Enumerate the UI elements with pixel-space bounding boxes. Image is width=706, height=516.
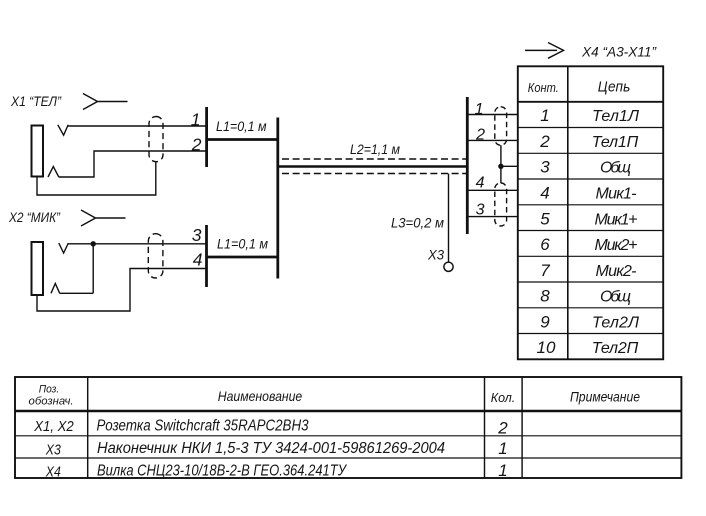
jack X2 tip contact (59, 243, 69, 253)
svg-text:Цепь: Цепь (598, 79, 631, 96)
wire screen to row3 (501, 165, 518, 167)
wire junction down (92, 244, 94, 293)
cable bar X4 (466, 97, 469, 234)
svg-text:7: 7 (540, 261, 550, 280)
junction dot screens (498, 164, 503, 169)
svg-text:Кол.: Кол. (491, 390, 516, 405)
wire pin4 to table (469, 189, 518, 191)
wire X1 sleeve to pin2 (59, 151, 207, 177)
svg-text:X1, X2: X1, X2 (33, 419, 73, 435)
BOM column divider 1 (87, 377, 89, 478)
svg-text:1: 1 (498, 461, 507, 480)
terminal X3 circle (444, 262, 453, 271)
BOM row line 1 (15, 435, 681, 437)
svg-text:Примечание: Примечание (570, 390, 640, 405)
svg-text:X4: X4 (45, 465, 61, 481)
svg-text:Общ: Общ (600, 289, 631, 306)
svg-text:3: 3 (192, 225, 202, 245)
svg-text:3: 3 (540, 158, 550, 177)
jack X1 body (32, 126, 44, 177)
svg-text:Тел2Л: Тел2Л (592, 314, 639, 331)
cable L1 bottom (207, 256, 278, 259)
svg-text:X3: X3 (427, 247, 444, 263)
screen symbol cable L1 bottom (148, 234, 163, 278)
svg-text:L2=1,1 м: L2=1,1 м (350, 141, 400, 157)
svg-text:Тел1Л: Тел1Л (592, 108, 639, 125)
svg-text:Тел1П: Тел1П (592, 134, 639, 151)
wire pin1 to table (469, 114, 518, 116)
wire X2 sleeve (60, 292, 93, 294)
svg-text:1: 1 (540, 106, 549, 125)
pin table numbers (537, 106, 556, 357)
svg-text:1: 1 (191, 110, 201, 130)
BOM header line (15, 410, 681, 412)
svg-text:4: 4 (540, 184, 549, 203)
cable L1 top (207, 138, 278, 141)
wire X2 body to pin4 (37, 269, 207, 312)
screen symbol pair 1-2 (495, 107, 507, 145)
svg-text:2: 2 (191, 135, 202, 155)
cable L2 screen dash bottom (282, 173, 466, 175)
svg-text:Конт.: Конт. (528, 81, 559, 95)
svg-text:Мик2+: Мик2+ (595, 237, 638, 254)
pin table circuits (592, 108, 639, 357)
pin table header line (518, 101, 663, 103)
wire X1 tip to pin1 (68, 125, 206, 127)
svg-text:Мик2-: Мик2- (596, 263, 637, 280)
junction dot X2 (91, 241, 96, 246)
svg-text:2: 2 (475, 127, 485, 144)
X4 direction arrow (525, 43, 564, 59)
BOM row line 2 (15, 457, 681, 459)
svg-text:1: 1 (498, 439, 507, 458)
jack X2 body (32, 242, 44, 295)
svg-text:9: 9 (540, 312, 550, 331)
svg-text:L1=0,1 м: L1=0,1 м (216, 118, 267, 134)
cable L2 screen dash top (282, 158, 466, 160)
svg-text:Общ: Общ (600, 160, 631, 177)
svg-text:5: 5 (540, 209, 550, 228)
cable bar X1 (205, 107, 208, 167)
svg-text:Мик1+: Мик1+ (595, 211, 638, 228)
BOM table frame (15, 377, 681, 478)
wire X2 tip to pin3 (68, 243, 206, 245)
svg-text:6: 6 (540, 235, 550, 254)
jack X1 sleeve contact (48, 167, 59, 178)
svg-text:L3=0,2 м: L3=0,2 м (391, 215, 444, 231)
pin table column divider (567, 66, 569, 359)
svg-text:Наконечник НКИ 1,5-3 ТУ 3424-0: Наконечник НКИ 1,5-3 ТУ 3424-001-5986126… (97, 440, 445, 457)
pin table row lines (518, 128, 663, 334)
connector X2 plug arrow (81, 210, 126, 226)
svg-text:Розетка Switchcraft 35RAPC2BH3: Розетка Switchcraft 35RAPC2BH3 (97, 418, 309, 435)
cable L2 core (278, 165, 468, 168)
svg-text:Поз.: Поз. (39, 384, 60, 396)
BOM column divider 2 (484, 377, 486, 478)
svg-text:10: 10 (537, 338, 556, 357)
svg-text:Тел2П: Тел2П (592, 340, 639, 357)
svg-text:3: 3 (476, 202, 485, 219)
junction cable bar (276, 118, 279, 279)
svg-text:L1=0,1 м: L1=0,1 м (217, 236, 268, 252)
svg-text:2: 2 (539, 132, 550, 151)
cable bar X2 (205, 225, 208, 287)
svg-text:2: 2 (497, 419, 508, 438)
svg-text:X1 “ТЕЛ”: X1 “ТЕЛ” (10, 94, 61, 109)
svg-text:обознач.: обознач. (29, 396, 74, 408)
jack X2 sleeve contact (51, 284, 60, 294)
svg-text:4: 4 (476, 175, 485, 192)
svg-text:Мик1-: Мик1- (596, 186, 637, 203)
svg-text:8: 8 (540, 287, 550, 306)
pin table frame (518, 66, 663, 359)
screen symbol cable L1 top (149, 117, 163, 162)
svg-text:1: 1 (475, 101, 484, 118)
connector X1 plug arrow (83, 94, 128, 110)
wire pin3 to table (469, 216, 518, 218)
svg-text:Наименование: Наименование (218, 388, 303, 404)
svg-text:4: 4 (193, 250, 203, 270)
jack X1 tip contact (58, 125, 68, 135)
wire pin2 to table (469, 139, 518, 141)
svg-text:X2 “МИК”: X2 “МИК” (8, 210, 60, 225)
wire screens link (500, 145, 502, 183)
BOM column divider 3 (521, 377, 523, 478)
svg-text:Вилка СНЦ23-10/18В-2-В ГЕО.364: Вилка СНЦ23-10/18В-2-В ГЕО.364.241ТУ (97, 463, 348, 480)
screen symbol pair 4-3 (495, 183, 507, 226)
svg-text:X4 “А3-Х11”: X4 “А3-Х11” (581, 44, 657, 60)
wire L3 (448, 174, 450, 263)
svg-text:X3: X3 (45, 443, 61, 459)
wire X1 body to screen (37, 162, 156, 196)
